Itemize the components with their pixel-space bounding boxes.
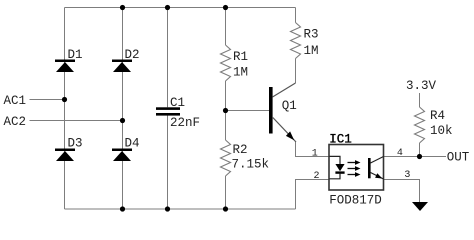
svg-text:D1: D1 (68, 48, 83, 62)
junction bottom bus at R2 (223, 206, 228, 211)
LED inside IC1 (330, 156, 345, 178)
svg-text:IC1: IC1 (329, 133, 352, 147)
LED arrows (348, 160, 361, 177)
svg-text:R2: R2 (233, 143, 248, 157)
wire AC1 lead (30, 99, 65, 101)
wire column D2/D4 (122, 8, 124, 210)
svg-text:2: 2 (314, 171, 320, 182)
junction OUT node (417, 154, 422, 159)
junction AC2 at D2 column (120, 118, 125, 123)
junction bottom bus at C1 (165, 206, 170, 211)
svg-text:R3: R3 (304, 28, 319, 42)
wire bottom bus (65, 208, 296, 210)
svg-text:Q1: Q1 (282, 99, 297, 113)
svg-text:4: 4 (397, 148, 403, 159)
wire AC2 lead (30, 120, 123, 122)
svg-text:1M: 1M (233, 65, 248, 79)
svg-text:3: 3 (404, 170, 410, 181)
ground (412, 202, 428, 211)
junction top bus at D2 (120, 5, 125, 10)
wire left column D1/D3 (64, 8, 66, 210)
wire pin 4 to OUT (384, 156, 447, 158)
junction R1 R2 base node (223, 108, 228, 113)
transistor Q1 (269, 83, 297, 142)
svg-text:FOD817D: FOD817D (329, 194, 382, 208)
resistor R3 (291, 8, 319, 84)
svg-text:3.3V: 3.3V (406, 79, 437, 93)
wire column C1 upper (167, 8, 169, 108)
wire pin 3 to ground (384, 180, 420, 203)
resistor R4 (415, 93, 453, 156)
diode D3 (55, 137, 83, 162)
phototransistor inside IC1 (368, 157, 384, 180)
wire pin 2 to ground bus (296, 180, 330, 210)
junction bottom bus at D4 (120, 206, 125, 211)
svg-text:D4: D4 (125, 137, 140, 151)
svg-text:10k: 10k (430, 124, 453, 138)
svg-text:R4: R4 (430, 109, 445, 123)
junction AC1 at D1 column (62, 97, 67, 102)
diode D2 (112, 48, 140, 72)
svg-text:AC1: AC1 (4, 94, 27, 108)
wire Q1 emitter to pin 1 (296, 142, 330, 157)
diode D1 (55, 48, 83, 72)
svg-text:1M: 1M (304, 44, 319, 58)
diode D4 (112, 137, 140, 162)
junction top bus at R1 (223, 5, 228, 10)
svg-text:AC2: AC2 (4, 115, 27, 129)
resistor R1 (221, 8, 249, 111)
wire top bus (65, 7, 296, 9)
junction top bus at C1 (165, 5, 170, 10)
svg-text:7.15k: 7.15k (232, 158, 270, 172)
capacitor C1 (156, 96, 200, 130)
wire column C1 lower (167, 116, 169, 210)
resistor R2 (221, 111, 270, 210)
svg-text:C1: C1 (170, 96, 185, 110)
svg-text:D2: D2 (125, 48, 140, 62)
wire Q1 base (226, 110, 270, 112)
op-amp U1 : optocoupler IC1 box (329, 133, 384, 208)
svg-text:1: 1 (312, 148, 318, 159)
svg-text:22nF: 22nF (170, 116, 200, 130)
svg-text:D3: D3 (68, 137, 83, 151)
svg-text:OUT: OUT (447, 151, 470, 165)
svg-text:R1: R1 (233, 50, 248, 64)
